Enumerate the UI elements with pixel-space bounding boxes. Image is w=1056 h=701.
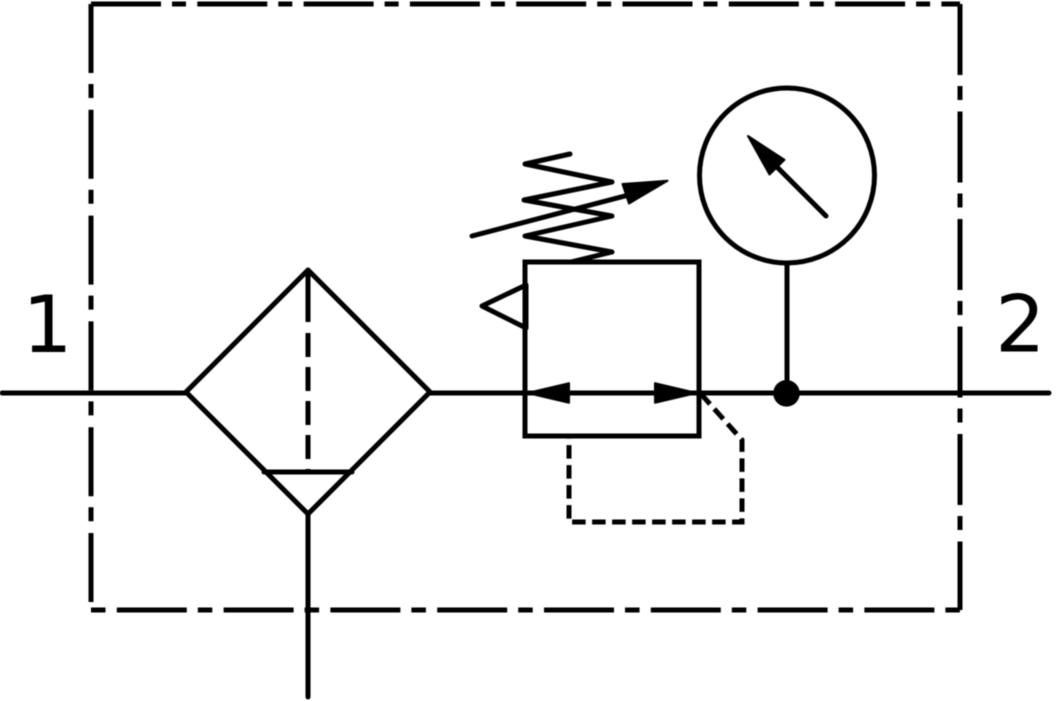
gauge needle head (filled) — [748, 136, 785, 175]
pressure gauge G: dial circle — [700, 88, 875, 263]
water separator line — [264, 470, 352, 475]
pilot triangle — [482, 285, 526, 328]
wire: main line from port 1 to filter inlet — [2, 391, 186, 396]
adjustment arrow head (filled) — [623, 181, 668, 204]
spring (adjustment) zigzag — [524, 154, 612, 262]
wire: main line from regulator to port 2 — [699, 391, 1049, 396]
enclosure border dash-dot left edge — [89, 4, 94, 610]
wire: main line from filter outlet to regulator — [430, 391, 525, 396]
enclosure border dash-dot bottom edge — [91, 608, 960, 613]
filter element: dashed center line — [306, 333, 311, 472]
flow arrow right (filled) — [655, 383, 697, 403]
flow arrow left (filled) — [528, 383, 570, 403]
junction dot — [773, 380, 800, 407]
enclosure border dash-dot right edge — [958, 4, 963, 610]
drain wire — [306, 514, 311, 697]
regulator R: body rectangle — [525, 262, 699, 436]
port 2 label — [1001, 293, 1038, 352]
gauge needle shaft — [778, 168, 826, 216]
gauge stem wire — [785, 263, 790, 393]
filter element: dashed center line solid start — [306, 271, 311, 322]
enclosure border dash-dot top edge — [91, 2, 960, 7]
wire: main line through regulator body — [525, 391, 699, 396]
port 1 label — [31, 295, 65, 353]
adjustment arrow shaft — [472, 192, 640, 236]
filter: diamond body — [186, 270, 430, 514]
pilot line (dashed) — [569, 394, 742, 522]
